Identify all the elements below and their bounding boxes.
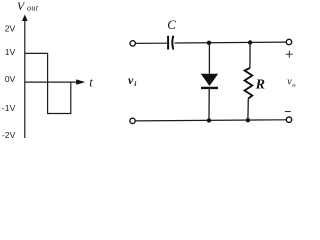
svg-text:R: R (255, 78, 265, 93)
capacitor C (168, 36, 173, 50)
svg-text:2V: 2V (5, 24, 16, 34)
label v_o (faint) (287, 77, 296, 90)
svg-text:C: C (167, 17, 176, 32)
resistor R zigzag (245, 68, 253, 99)
node: resistor junction top (248, 40, 252, 44)
label v_i (128, 73, 137, 88)
wire: resistor branch upper (249, 43, 251, 69)
wire: top-left terminal to capacitor (136, 42, 167, 44)
wire: diode branch lower (208, 89, 210, 121)
node: diode junction top (207, 41, 211, 45)
plus sign (286, 51, 293, 58)
svg-text:1V: 1V (5, 47, 16, 57)
wire: resistor branch lower (247, 99, 249, 121)
svg-text:t: t (89, 75, 93, 89)
output terminal top-right (286, 39, 291, 44)
input terminal top-left (130, 41, 135, 46)
node: diode junction bottom (207, 118, 211, 122)
wire: diode branch upper (208, 43, 210, 74)
axis label V_out (17, 1, 39, 13)
bottom-right terminal (286, 117, 291, 122)
svg-text:-2V: -2V (2, 130, 16, 140)
svg-text:out: out (27, 3, 39, 12)
svg-text:-1V: -1V (2, 103, 16, 113)
wire: bottom rail (135, 120, 286, 121)
minus sign (285, 111, 291, 113)
diode (anode top, cathode bottom) (201, 74, 218, 88)
horizontal axis (t axis) with arrow (25, 79, 85, 84)
wire: capacitor to output terminal (top rail) (175, 41, 287, 44)
node: resistor junction bottom (246, 118, 250, 122)
svg-text:0V: 0V (5, 74, 16, 84)
waveform square wave (25, 53, 71, 113)
svg-text:v: v (128, 73, 134, 87)
vertical axis (V_out axis) (22, 15, 28, 139)
bottom-left terminal (130, 118, 135, 123)
